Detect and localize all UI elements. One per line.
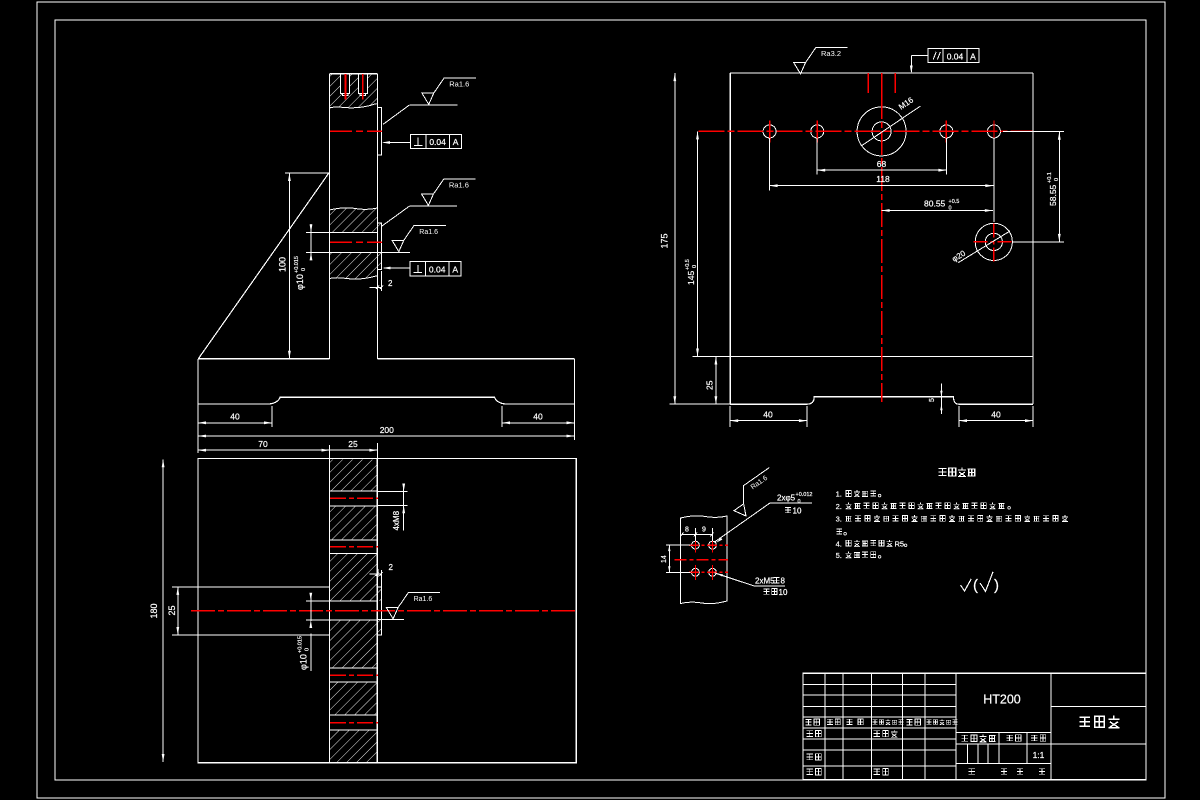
svg-text:4xM8: 4xM8 (392, 510, 401, 530)
svg-text:HT200: HT200 (983, 693, 1021, 707)
svg-text:0: 0 (798, 499, 801, 505)
svg-text:Ra1.6: Ra1.6 (449, 181, 469, 190)
svg-text:5.: 5. (836, 551, 842, 560)
svg-text:40: 40 (230, 412, 240, 422)
svg-text:0.04: 0.04 (429, 137, 446, 147)
svg-text:0: 0 (301, 268, 307, 271)
svg-text:9: 9 (702, 527, 706, 534)
svg-text:(: ( (973, 577, 978, 594)
svg-text:R5: R5 (895, 539, 905, 548)
svg-text:0: 0 (692, 265, 698, 268)
svg-text:2xM5: 2xM5 (755, 577, 775, 586)
svg-text:+0.5: +0.5 (949, 199, 960, 205)
svg-text:0.04: 0.04 (947, 51, 964, 61)
svg-text:8: 8 (685, 527, 689, 534)
svg-text:4.: 4. (836, 539, 842, 548)
svg-text:+0.015: +0.015 (294, 256, 300, 273)
svg-text:0: 0 (949, 206, 952, 212)
svg-text:118: 118 (876, 174, 890, 184)
svg-text:2.: 2. (836, 502, 842, 511)
svg-text:14: 14 (661, 555, 668, 563)
svg-text:58.55: 58.55 (1048, 184, 1058, 206)
svg-text:A: A (452, 265, 458, 275)
svg-text:Ra1.6: Ra1.6 (449, 80, 469, 89)
svg-text:0.04: 0.04 (429, 265, 446, 275)
svg-text:1:1: 1:1 (1033, 750, 1045, 760)
svg-text:1.: 1. (836, 490, 842, 499)
svg-text:10: 10 (793, 507, 802, 516)
svg-text:25: 25 (167, 605, 177, 615)
svg-text:200: 200 (380, 425, 394, 435)
svg-text:80.55: 80.55 (924, 199, 946, 209)
svg-text:2: 2 (389, 563, 394, 572)
svg-text:Ra1.6: Ra1.6 (419, 229, 438, 236)
svg-text:40: 40 (991, 410, 1001, 420)
svg-text:+0.012: +0.012 (796, 492, 813, 498)
svg-text:+0.5: +0.5 (685, 259, 691, 270)
svg-text:100: 100 (278, 257, 288, 272)
svg-text:25: 25 (704, 380, 714, 390)
svg-text:): ) (994, 577, 999, 594)
svg-text:145: 145 (686, 271, 696, 285)
svg-text:40: 40 (533, 412, 543, 422)
svg-text:Ra1.6: Ra1.6 (414, 596, 433, 603)
svg-text:3.: 3. (836, 515, 842, 524)
svg-text:175: 175 (660, 233, 670, 248)
svg-text:180: 180 (149, 603, 159, 618)
svg-text:0: 0 (1054, 178, 1060, 181)
svg-text:68: 68 (877, 159, 887, 169)
svg-text:Ra3.2: Ra3.2 (821, 49, 841, 58)
svg-text:+0.015: +0.015 (298, 636, 304, 653)
svg-text:φ10: φ10 (295, 274, 305, 290)
svg-text:5: 5 (929, 398, 936, 402)
svg-text:70: 70 (258, 439, 268, 449)
svg-text:40: 40 (763, 410, 773, 420)
svg-text:10: 10 (779, 588, 788, 597)
svg-text:2xφ5: 2xφ5 (777, 494, 796, 503)
svg-text:8: 8 (781, 577, 786, 586)
svg-text:2: 2 (388, 279, 393, 288)
svg-text:φ10: φ10 (299, 654, 309, 670)
svg-text:A: A (970, 51, 976, 61)
svg-text:0: 0 (305, 648, 311, 651)
svg-text:+0.1: +0.1 (1047, 172, 1053, 183)
svg-text:A: A (453, 137, 459, 147)
svg-text:25: 25 (348, 439, 358, 449)
